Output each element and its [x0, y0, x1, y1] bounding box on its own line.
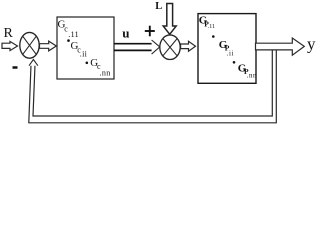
svg-text:.ii: .ii: [80, 49, 88, 58]
svg-text:.11: .11: [68, 30, 79, 39]
svg-text:.11: .11: [208, 24, 216, 30]
node R: [4, 26, 14, 41]
svg-text:R: R: [4, 26, 14, 41]
wire feedback outer line: [29, 51, 276, 123]
label Gcii: [71, 40, 88, 58]
node L label: [155, 1, 162, 12]
svg-text:L: L: [155, 1, 162, 12]
node u label: [122, 25, 129, 40]
wire R input block arrow: [2, 41, 18, 50]
node y label: [307, 34, 316, 53]
wire S2 to Gp block arrow: [181, 41, 196, 51]
block Gp plant: [198, 14, 256, 84]
diagonal dot 2 in Gp: [233, 61, 236, 64]
block Gc controller: [57, 17, 114, 79]
svg-text:y: y: [307, 34, 316, 53]
label Gp11: [199, 15, 216, 30]
wire feedback up arrowhead into S1: [29, 60, 38, 66]
label Gpii: [219, 39, 234, 57]
wire y output hollow arrow: [256, 38, 305, 55]
diagonal dot 1 in Gp: [212, 35, 215, 38]
svg-text:.ii: .ii: [227, 49, 234, 57]
label Gcnn: [90, 57, 110, 78]
wire L down block arrow: [163, 4, 176, 35]
diagonal dot 2 in Gc: [86, 62, 89, 65]
diagonal dot 1 in Gc: [67, 39, 70, 42]
label Gpnn: [238, 63, 257, 80]
svg-text:u: u: [122, 25, 129, 40]
wire u double line with open arrowhead: [114, 40, 160, 54]
label Gc11: [58, 19, 79, 40]
minus sign at S1: [13, 66, 18, 69]
svg-text:.nn: .nn: [247, 71, 257, 79]
wire feedback inner line: [33, 51, 272, 117]
plus sign at S2: [145, 26, 155, 37]
summing junction S2: [160, 35, 180, 60]
summing junction S1: [20, 32, 39, 58]
svg-text:.nn: .nn: [100, 68, 111, 77]
wire S1 to Gc block arrow: [40, 41, 57, 51]
